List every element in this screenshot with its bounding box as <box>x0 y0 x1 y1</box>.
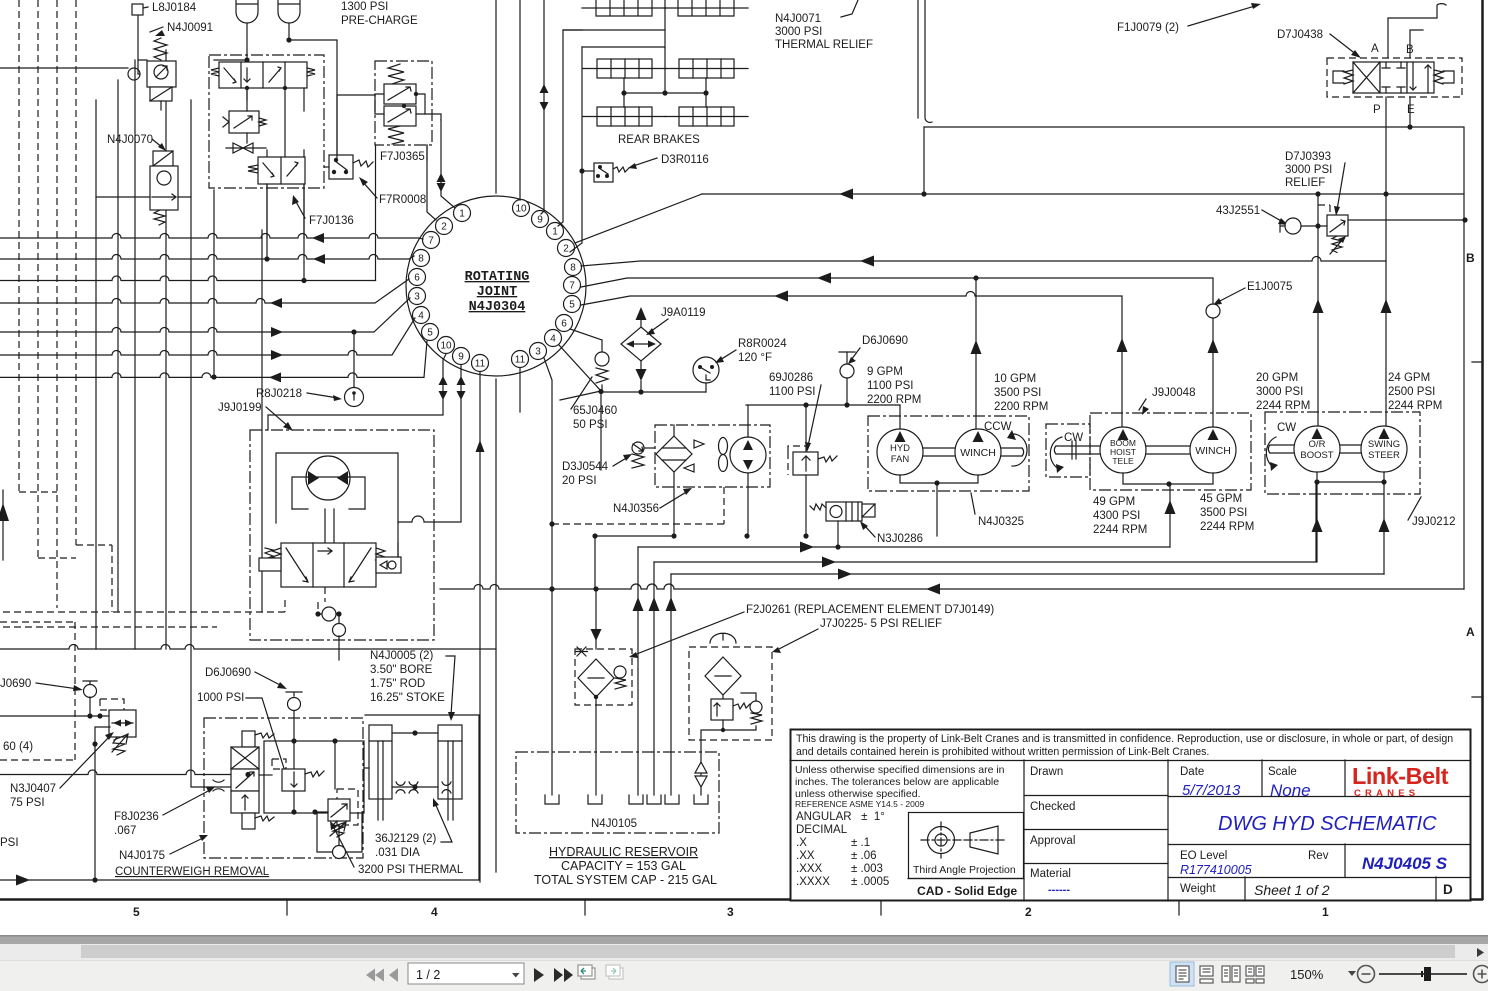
spool valve <box>242 731 255 747</box>
svg-text:J7J0225- 5 PSI RELIEF: J7J0225- 5 PSI RELIEF <box>820 618 942 630</box>
first page btn <box>366 969 384 982</box>
bus C drop through E1J0075 <box>1212 318 1214 427</box>
D7J0438 top wires <box>1388 4 1446 58</box>
rotating joint body circle N4J0304 <box>406 196 586 376</box>
svg-text:2: 2 <box>441 222 447 233</box>
D3R0116 pressure switch <box>594 163 613 182</box>
svg-text:D6J0690: D6J0690 <box>205 667 251 679</box>
pilot bus left <box>0 716 231 775</box>
accumulator feed wires <box>214 40 337 160</box>
svg-text:E1J0075: E1J0075 <box>1247 281 1292 293</box>
drawn/checked rows <box>1024 796 1168 864</box>
svg-text:24 GPM: 24 GPM <box>1388 372 1430 384</box>
svg-text:and details contained herein i: and details contained herein is prohibit… <box>796 746 1209 758</box>
svg-text:45 GPM: 45 GPM <box>1200 493 1242 505</box>
svg-text:J9J0048: J9J0048 <box>1152 387 1195 399</box>
svg-text:± .0005: ± .0005 <box>851 876 889 888</box>
svg-text:Sheet 1 of 2: Sheet 1 of 2 <box>1254 882 1330 898</box>
svg-text:8: 8 <box>570 263 576 274</box>
svg-text:STEER: STEER <box>1368 450 1400 461</box>
rotate icons <box>578 965 595 979</box>
svg-text:HYDRAULIC RESERVOIR: HYDRAULIC RESERVOIR <box>549 845 698 859</box>
hyd fan pump <box>877 429 923 475</box>
svg-text:inches. The tolerances below: inches. The tolerances below are applica… <box>795 776 999 788</box>
F7J0365 spring top <box>388 64 404 84</box>
pin1L riser <box>441 120 455 208</box>
svg-text:N3J0407: N3J0407 <box>10 783 56 795</box>
svg-text:This drawing is the property o: This drawing is the property of Link-Bel… <box>796 733 1453 745</box>
svg-text:FAN: FAN <box>891 454 910 465</box>
svg-text:60 (4): 60 (4) <box>3 741 33 753</box>
scrollbar thumb <box>81 945 1455 958</box>
D7J0438 spool section 1 <box>1353 62 1380 93</box>
fan motor <box>730 437 766 473</box>
svg-text:50 PSI: 50 PSI <box>573 419 608 431</box>
svg-text:TOTAL SYSTEM CAP - 215 GAL: TOTAL SYSTEM CAP - 215 GAL <box>534 873 717 887</box>
43J2551 test point <box>1285 218 1301 234</box>
svg-text:1100 PSI: 1100 PSI <box>867 380 913 392</box>
rear brake caliper 2 <box>679 59 734 78</box>
gauge link <box>601 392 706 470</box>
svg-text:J0690: J0690 <box>0 678 31 690</box>
1000 PSI relief <box>272 759 286 769</box>
svg-text:20 GPM: 20 GPM <box>1256 372 1298 384</box>
svg-text:.X: .X <box>796 837 807 849</box>
bus line T5 <box>0 298 410 332</box>
svg-text:3200 PSI THERMAL: 3200 PSI THERMAL <box>358 864 464 876</box>
svg-text:Approval: Approval <box>1030 835 1075 847</box>
bus B <box>581 257 1386 267</box>
drawing border right edge <box>1481 0 1484 900</box>
svg-text:2500 PSI: 2500 PSI <box>1388 386 1435 398</box>
svg-text:3000 PSI: 3000 PSI <box>1256 386 1303 398</box>
O/R boost drop <box>1317 226 1319 427</box>
gauge R8J0218 <box>345 388 364 407</box>
svg-text:A: A <box>1371 43 1379 55</box>
shaft 3 <box>1340 445 1361 453</box>
svg-text:.XXXX: .XXXX <box>796 876 830 888</box>
F7J0136 wires <box>247 88 304 238</box>
svg-text:± .003: ± .003 <box>851 863 883 875</box>
main return vertical <box>495 0 497 872</box>
feed line upper <box>924 127 1464 589</box>
heat exchanger <box>656 436 692 472</box>
zone ticks bottom <box>287 900 1179 915</box>
motor loop <box>292 477 365 509</box>
supply hose pair <box>918 0 932 122</box>
svg-text:HYD: HYD <box>890 443 910 454</box>
bus line T2 <box>0 255 414 260</box>
svg-text:10 GPM: 10 GPM <box>994 373 1036 385</box>
svg-text:2244 RPM: 2244 RPM <box>1388 400 1442 412</box>
svg-text:Material: Material <box>1030 868 1071 880</box>
svg-text:4300 PSI: 4300 PSI <box>1093 510 1140 522</box>
svg-text:2244 RPM: 2244 RPM <box>1093 524 1147 536</box>
bottom feed line <box>0 879 479 881</box>
bus D <box>581 292 1122 429</box>
svg-text:Weight: Weight <box>1180 883 1216 895</box>
J9J0199 enclosure <box>250 430 434 640</box>
svg-text:D6J0690: D6J0690 <box>862 335 908 347</box>
brake feed step wire <box>563 30 665 48</box>
N4J0091 solenoid <box>150 87 172 101</box>
right column grid <box>1168 760 1470 901</box>
zone tick right <box>1472 362 1483 697</box>
pin6R drop diagonal <box>570 329 602 340</box>
3200 PSI thermal relief <box>337 789 358 825</box>
N4J0070 spring <box>154 210 165 225</box>
N4J0070 solenoid <box>153 151 173 166</box>
drawing border bottom edge <box>0 898 1483 901</box>
pin1R riser <box>558 0 665 226</box>
left dashed manifold verticals <box>19 0 112 612</box>
svg-text:1000 PSI: 1000 PSI <box>197 692 244 704</box>
svg-text:1: 1 <box>1322 905 1329 919</box>
prev page btn <box>389 968 398 982</box>
svg-text:75 PSI: 75 PSI <box>10 797 45 809</box>
svg-text:CRANES: CRANES <box>1354 788 1419 799</box>
D7J0438 bottom wires <box>1386 97 1410 194</box>
svg-text:± .1: ± .1 <box>851 837 870 849</box>
svg-text:E: E <box>1407 104 1415 116</box>
svg-text:REAR BRAKES: REAR BRAKES <box>618 134 700 146</box>
pin9L drop <box>398 365 461 558</box>
svg-text:8: 8 <box>418 254 424 265</box>
svg-text:WINCH: WINCH <box>1195 445 1231 457</box>
svg-text:CCW: CCW <box>984 421 1012 433</box>
svg-text:N4J0091: N4J0091 <box>167 22 213 34</box>
joint pins left arc <box>409 205 489 372</box>
svg-text:1: 1 <box>552 227 558 238</box>
J7J0225 filter <box>689 647 772 740</box>
projection box <box>909 813 1024 879</box>
F7J0136 lower valve <box>258 157 305 184</box>
dashed pilot line <box>552 487 724 524</box>
swing motor <box>306 456 350 500</box>
below valve checks <box>318 587 325 614</box>
suction line 2 <box>654 482 1316 562</box>
winch pump 2 <box>1190 427 1236 473</box>
svg-text:N4J0005 (2): N4J0005 (2) <box>370 650 433 662</box>
feed line lower <box>702 193 1464 195</box>
N4J0070 valve body <box>150 166 178 210</box>
suction line 3 <box>671 573 1384 575</box>
svg-text:ANGULAR ± 1°: ANGULAR ± 1° <box>796 811 885 823</box>
svg-text:5: 5 <box>569 300 575 311</box>
return line long <box>440 584 1464 589</box>
rear brake caliper 4 <box>679 107 734 126</box>
hydraulic reservoir tank <box>516 752 719 833</box>
pump box2 bottom link <box>1123 473 1213 484</box>
joint pins right arc <box>512 200 582 368</box>
svg-text:JOINT: JOINT <box>477 285 518 300</box>
svg-text:3500 PSI: 3500 PSI <box>994 387 1041 399</box>
svg-text:Drawn: Drawn <box>1030 766 1063 778</box>
pump box1 bottom link <box>900 475 978 483</box>
counterweight outer box <box>365 715 479 880</box>
svg-text:COUNTERWEIGH REMOVAL: COUNTERWEIGH REMOVAL <box>115 866 270 878</box>
svg-text:Rev: Rev <box>1308 850 1329 862</box>
svg-text:D3J0544: D3J0544 <box>562 461 609 473</box>
svg-text:65J0460: 65J0460 <box>573 405 617 417</box>
69J0286 relief <box>805 405 807 452</box>
inner block <box>264 741 364 813</box>
pin11L drop <box>479 372 481 882</box>
svg-text:A: A <box>1466 625 1475 639</box>
svg-text:6: 6 <box>414 273 420 284</box>
pin9R riser <box>541 0 544 214</box>
F8J0236 orifice <box>213 780 224 791</box>
title block frame <box>791 730 1471 901</box>
svg-text:4: 4 <box>431 905 438 919</box>
D6J0690 check mid <box>286 692 302 696</box>
rear brake tie wires <box>624 48 706 107</box>
svg-text:CW: CW <box>1064 432 1083 444</box>
svg-text:1.75" ROD: 1.75" ROD <box>370 678 425 690</box>
svg-text:9: 9 <box>458 352 464 363</box>
cylinder 1 <box>369 725 392 799</box>
svg-text:10: 10 <box>515 204 527 215</box>
svg-text:3: 3 <box>414 292 420 303</box>
svg-text:F7J0136: F7J0136 <box>309 215 354 227</box>
N4J0356 enclosure <box>655 425 770 487</box>
left edge flow arrow <box>0 503 9 521</box>
shaft <box>923 448 955 456</box>
svg-text:N4J0071: N4J0071 <box>775 13 821 25</box>
svg-text:F8J0236: F8J0236 <box>114 811 159 823</box>
svg-text:R8R0024: R8R0024 <box>738 338 787 350</box>
E1J0075 check <box>1206 304 1220 318</box>
pump box 1 <box>868 416 1029 491</box>
svg-text:9: 9 <box>537 215 543 226</box>
F7J0136 main valve <box>219 62 307 88</box>
N3J0286 valve <box>826 502 862 521</box>
svg-text:SWING: SWING <box>1368 439 1400 450</box>
svg-text:120 °F: 120 °F <box>738 352 772 364</box>
svg-text:5/7/2013: 5/7/2013 <box>1182 782 1241 799</box>
svg-text:CW: CW <box>1277 422 1296 434</box>
svg-text:None: None <box>1270 781 1311 800</box>
svg-text:D: D <box>1443 882 1453 897</box>
winch1 drop <box>975 278 977 430</box>
svg-text:ROTATING: ROTATING <box>465 270 530 285</box>
svg-text:150%: 150% <box>1290 967 1324 982</box>
valve left stub <box>259 558 281 571</box>
svg-text:11: 11 <box>475 359 486 370</box>
svg-text:Date: Date <box>1180 766 1204 778</box>
svg-text:2: 2 <box>563 244 569 255</box>
D7J0438 spool section 2 center <box>1380 62 1407 93</box>
svg-text:B: B <box>1466 251 1475 265</box>
svg-text:PSI: PSI <box>0 837 19 849</box>
bus line T3 <box>0 276 376 281</box>
svg-text:DWG HYD SCHEMATIC: DWG HYD SCHEMATIC <box>1218 813 1437 835</box>
svg-text:F7J0365: F7J0365 <box>380 151 425 163</box>
third angle projection symbol target <box>928 827 955 854</box>
grid lines <box>790 760 1470 762</box>
toolbar background <box>0 960 1488 991</box>
svg-text:2200 RPM: 2200 RPM <box>867 394 921 406</box>
F7R0008 pressure switch <box>329 155 353 179</box>
svg-text:10: 10 <box>440 341 452 352</box>
pin3R drop <box>544 358 552 795</box>
D7J0393 wires <box>1318 194 1465 226</box>
svg-text:P: P <box>1373 104 1381 116</box>
svg-text:CAPACITY = 153 GAL: CAPACITY = 153 GAL <box>561 859 686 873</box>
svg-text:20 PSI: 20 PSI <box>562 475 597 487</box>
D3J0544 check <box>632 442 644 454</box>
F7J0365 spring bottom <box>388 126 404 144</box>
F7J0365 valve a <box>384 84 416 104</box>
svg-text:49 GPM: 49 GPM <box>1093 496 1135 508</box>
wire vertical to bus junction <box>267 145 376 281</box>
svg-text:D7J0393: D7J0393 <box>1285 151 1331 163</box>
svg-text:43J2551: 43J2551 <box>1216 205 1260 217</box>
fan circuit wires <box>595 405 900 536</box>
bus C <box>581 278 1213 304</box>
last page btn <box>554 968 573 982</box>
svg-text:1 / 2: 1 / 2 <box>416 968 440 982</box>
svg-text:3: 3 <box>535 347 541 358</box>
svg-text:RELIEF: RELIEF <box>1285 177 1325 189</box>
dashed pilot bus <box>3 600 285 627</box>
svg-text:36J2129 (2): 36J2129 (2) <box>375 833 437 845</box>
bus line T1 <box>0 234 423 240</box>
accumulator 1 <box>236 0 258 23</box>
left dashed enclosure <box>0 622 75 760</box>
svg-text:N4J0405 S: N4J0405 S <box>1362 854 1448 873</box>
svg-text:5: 5 <box>133 905 140 919</box>
pump box 3 <box>1265 412 1420 494</box>
svg-text:D7J0438: D7J0438 <box>1277 29 1323 41</box>
svg-text:6: 6 <box>561 319 567 330</box>
svg-text:N3J0286: N3J0286 <box>877 533 923 545</box>
suction drops <box>638 547 671 795</box>
F7J0365 valve b <box>384 106 416 126</box>
rear brake caliper 1 <box>597 59 652 78</box>
svg-text:.067: .067 <box>114 825 136 837</box>
svg-text:------: ------ <box>1048 884 1070 896</box>
svg-text:69J0286: 69J0286 <box>769 372 813 384</box>
svg-text:1: 1 <box>459 209 465 220</box>
pump box3 bottom links <box>1317 472 1384 482</box>
bus B drop to swing pump <box>1385 194 1387 427</box>
svg-text:WINCH: WINCH <box>960 447 996 459</box>
svg-text:N4J0304: N4J0304 <box>469 300 526 315</box>
svg-text:4: 4 <box>418 311 424 322</box>
svg-text:4: 4 <box>550 334 556 345</box>
page combo <box>408 963 524 984</box>
pin10R riser <box>519 0 521 200</box>
svg-text:L8J0184: L8J0184 <box>152 2 197 14</box>
svg-text:J9J0199: J9J0199 <box>218 402 261 414</box>
svg-text:R8J0218: R8J0218 <box>256 388 302 400</box>
D6J0690 check top <box>839 351 855 353</box>
svg-text:3000 PSI: 3000 PSI <box>1285 164 1332 176</box>
svg-text:16.25" STOKE: 16.25" STOKE <box>370 692 445 704</box>
valve block <box>281 543 376 587</box>
cylinder links <box>392 732 438 734</box>
shaft 2 <box>1146 446 1190 454</box>
svg-text:THERMAL RELIEF: THERMAL RELIEF <box>775 39 873 51</box>
next page btn <box>534 968 544 982</box>
svg-text:Unless otherwise specified dim: Unless otherwise specified dimensions ar… <box>795 764 1005 776</box>
svg-text:TELE: TELE <box>1112 456 1134 466</box>
D7J0393 relief valve <box>1327 215 1348 236</box>
svg-text:O/R: O/R <box>1309 439 1326 450</box>
pin11R stub <box>519 368 521 412</box>
suction line 1 <box>638 546 1170 548</box>
65J0460 check <box>601 340 603 352</box>
pin2L riser <box>427 145 436 220</box>
front brake caliper left <box>582 0 666 16</box>
svg-text:REFERENCE ASME Y14.5 - 2009: REFERENCE ASME Y14.5 - 2009 <box>795 799 925 809</box>
breather arrows <box>695 762 707 795</box>
bus line T6 <box>0 318 415 355</box>
svg-text:N4J0356: N4J0356 <box>613 503 659 515</box>
F7J0365 enclosure <box>375 61 432 145</box>
D7J0438 valve enclosure <box>1327 58 1462 97</box>
svg-text:N4J0070: N4J0070 <box>107 134 153 146</box>
wire verticals left grid <box>96 50 262 787</box>
svg-text:7: 7 <box>428 236 434 247</box>
svg-text:Checked: Checked <box>1030 801 1075 813</box>
N4J0091 spring <box>154 38 167 60</box>
svg-text:J9A0119: J9A0119 <box>661 307 706 319</box>
front brake caliper right <box>664 0 748 16</box>
bus line T7 <box>0 341 427 377</box>
svg-text:2: 2 <box>1025 905 1032 919</box>
D7J0438 spool section 3 <box>1407 62 1434 93</box>
pin10L drop <box>268 354 446 430</box>
pump box 2 <box>1090 413 1251 490</box>
cylinder 2 <box>438 725 462 799</box>
svg-text:Third Angle Projection: Third Angle Projection <box>913 864 1016 876</box>
svg-text:J9J0212: J9J0212 <box>1412 516 1455 528</box>
accumulator 2 <box>278 0 300 23</box>
svg-text:N4J0175: N4J0175 <box>119 850 165 862</box>
svg-text:F7R0008: F7R0008 <box>379 194 426 206</box>
svg-text:± .06: ± .06 <box>851 850 877 862</box>
N3J0407 relief <box>100 699 124 710</box>
svg-text:.031 DIA: .031 DIA <box>375 847 420 859</box>
gauge drop R8J0218 <box>353 332 355 388</box>
svg-text:DECIMAL: DECIMAL <box>796 824 848 836</box>
swing steer pump <box>1361 426 1407 472</box>
fan blades <box>719 438 728 455</box>
svg-text:.XX: .XX <box>796 850 815 862</box>
J9A0119 shuttle <box>636 307 647 320</box>
svg-text:Scale: Scale <box>1268 766 1297 778</box>
svg-text:2200 RPM: 2200 RPM <box>994 401 1048 413</box>
N4J0091 check valve body <box>147 61 176 87</box>
D7J0393 spring <box>1332 236 1342 253</box>
valve springs <box>265 548 385 563</box>
scrollbar dark strip <box>0 935 1488 944</box>
F7J0365 wires <box>337 95 375 160</box>
svg-text:3: 3 <box>727 905 734 919</box>
svg-text:D3R0116: D3R0116 <box>661 154 709 166</box>
scrollbar right arrow <box>1477 948 1484 957</box>
bottom return bus <box>0 645 496 650</box>
cone symbol <box>970 826 998 854</box>
svg-text:9 GPM: 9 GPM <box>867 366 903 378</box>
svg-text:F1J0079 (2): F1J0079 (2) <box>1117 22 1179 34</box>
F7J0136 inner relief <box>229 111 259 133</box>
svg-text:2244 RPM: 2244 RPM <box>1200 521 1254 533</box>
svg-text:3000 PSI: 3000 PSI <box>775 26 822 38</box>
svg-text:3.50" BORE: 3.50" BORE <box>370 664 433 676</box>
